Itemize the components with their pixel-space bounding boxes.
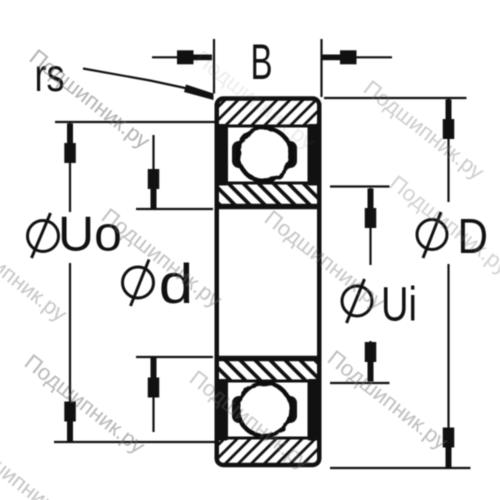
B arrow left xyxy=(177,50,212,64)
d arrow up xyxy=(148,358,160,398)
diameter symbol D xyxy=(417,212,447,258)
D arrow up xyxy=(443,100,455,140)
inner raceway line (bottom) xyxy=(216,380,320,383)
inner ring hatch (top) xyxy=(217,183,319,205)
d extension line top xyxy=(136,208,213,210)
Ui dim line lower xyxy=(369,341,371,382)
outer raceway line (top) xyxy=(216,125,320,128)
inner raceway line (top) xyxy=(216,182,320,185)
raceway shadow right (bottom) xyxy=(280,396,297,423)
seal left (bottom section) xyxy=(215,379,228,441)
diameter symbol Uo xyxy=(28,213,59,258)
ball (top section) xyxy=(238,128,291,181)
d extension line bottom xyxy=(136,356,213,358)
Uo dim line upper xyxy=(69,123,71,212)
svg-text:B: B xyxy=(251,34,273,90)
raceway shadow left (bottom) xyxy=(232,396,249,423)
B dim line right xyxy=(351,56,392,58)
svg-text:Ui: Ui xyxy=(381,279,417,332)
Ui dim line upper xyxy=(369,188,371,265)
bore surface line (top section) xyxy=(215,204,321,210)
bearing outer rectangle xyxy=(217,99,320,466)
diameter symbol Ui xyxy=(342,279,372,323)
D dim line lower xyxy=(447,264,449,467)
D extension line top xyxy=(324,97,467,99)
inner ring hatch (bottom) xyxy=(217,360,319,382)
rs leader line xyxy=(83,69,192,90)
Ui extension line bottom xyxy=(330,382,390,384)
seal right (top section) xyxy=(308,124,321,186)
diameter symbol d xyxy=(123,260,154,307)
svg-text:Подшипник.ру: Подшипник.ру xyxy=(359,75,489,184)
B dim line left xyxy=(152,56,179,58)
Uo arrow up xyxy=(64,124,76,164)
d dim line upper xyxy=(152,135,154,190)
seal right (bottom section) xyxy=(308,379,321,441)
rs leader arrow xyxy=(184,85,214,101)
seal left (top section) xyxy=(215,124,228,186)
Ui arrow down xyxy=(365,342,377,382)
d dim line lower xyxy=(152,397,154,432)
raceway shadow left (top) xyxy=(232,141,249,168)
Uo extension line top xyxy=(55,121,217,123)
Uo dim line lower xyxy=(69,263,71,441)
outer ring hatch (top) xyxy=(217,101,319,127)
D arrow down xyxy=(443,428,455,468)
raceway shadow right (top) xyxy=(280,141,297,168)
B extension line left xyxy=(213,39,215,94)
ball (bottom section) xyxy=(238,383,291,436)
Uo extension line bottom xyxy=(54,441,217,443)
B arrow right xyxy=(322,50,357,64)
d arrow down xyxy=(148,169,160,209)
D dim line upper xyxy=(447,99,449,202)
outer ring hatch (bottom) xyxy=(217,438,319,464)
D extension line bottom xyxy=(330,467,471,469)
B extension line right xyxy=(320,39,322,97)
Uo arrow down xyxy=(64,402,76,442)
outer raceway line (bottom) xyxy=(216,437,320,440)
Ui arrow up xyxy=(365,189,377,229)
bore surface line (bottom section) xyxy=(215,356,321,362)
svg-text:Подшипник.ру: Подшипник.ру xyxy=(323,345,453,454)
Ui extension line top xyxy=(330,185,390,187)
